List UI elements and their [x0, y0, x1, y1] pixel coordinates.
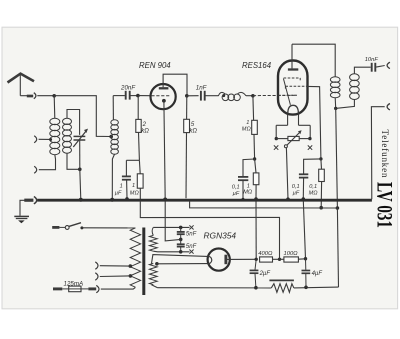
wire [152, 255, 208, 264]
transformer sec heater [149, 228, 157, 252]
node lineA screen [319, 206, 323, 210]
node rail 2uF [254, 286, 258, 290]
resistor field [269, 280, 294, 292]
node bus L2 [110, 198, 114, 202]
svg-text:Telefunken: Telefunken [380, 130, 390, 179]
wire [253, 94, 297, 96]
transformer core [142, 228, 145, 296]
capacitor 0.1uF screen [299, 174, 308, 177]
bus rail [37, 199, 372, 202]
choke HF [218, 92, 246, 100]
RGN354 anode [224, 255, 227, 265]
svg-text:RGN354: RGN354 [204, 230, 237, 240]
wire [138, 95, 151, 97]
wire [187, 95, 199, 97]
terminal mains tap1 [95, 262, 98, 269]
resistor 1M divider [253, 173, 259, 185]
label 5nF upper [186, 231, 197, 237]
wire [255, 185, 257, 198]
RES164 filament [288, 105, 299, 113]
resistor 1M bias [137, 174, 143, 188]
node antenna junction [52, 94, 56, 98]
resistor 2k [136, 119, 141, 132]
antenna [8, 74, 35, 96]
node 5nF mid [179, 238, 183, 242]
node prim tap2 [129, 274, 133, 278]
wire [37, 95, 54, 97]
label Telefunken [380, 130, 390, 179]
variable capacitor tuning [73, 129, 88, 147]
RES164 grid [278, 94, 297, 96]
node bias node [253, 157, 256, 160]
tube RGN354 envelope [208, 249, 230, 271]
wire [138, 132, 141, 160]
wire [307, 86, 321, 158]
wire [303, 200, 305, 258]
resistor 400 [260, 257, 273, 262]
resistor 5k [184, 119, 190, 132]
label 100 [284, 251, 299, 257]
svg-text:2: 2 [142, 122, 147, 128]
svg-text:100Ω: 100Ω [284, 251, 299, 257]
wire [39, 138, 51, 140]
node sec tap [155, 262, 159, 266]
label 125mA [64, 280, 84, 287]
node 5nF bot [179, 250, 183, 254]
label 400 [258, 251, 273, 257]
capacitor 5nF upper [177, 227, 185, 239]
svg-text:5nF: 5nF [186, 231, 197, 237]
capacitor 5nF lower [177, 239, 185, 251]
wire [39, 155, 56, 170]
capacitor 2uF [250, 259, 259, 287]
node B3 [304, 257, 307, 260]
node REN grid [136, 94, 140, 98]
label 1M bias [130, 183, 140, 197]
svg-text:kΩ: kΩ [189, 128, 197, 134]
wire [302, 178, 304, 198]
svg-text:4µF: 4µF [312, 271, 323, 277]
node B1 [255, 258, 258, 261]
capacitor 20nF [126, 91, 130, 100]
label LV031 [372, 182, 397, 228]
coil OT secondary [350, 74, 360, 100]
label 2k [141, 122, 149, 134]
antenna plug pin [27, 95, 33, 98]
wire [163, 74, 187, 96]
wire [157, 263, 208, 265]
wire [186, 96, 188, 120]
x-mark heater bot [189, 250, 193, 254]
svg-text:1: 1 [132, 183, 135, 189]
label 4uF [312, 271, 323, 277]
wire [126, 180, 128, 198]
node L1a tap [49, 138, 52, 141]
capacitor 0.1uF bias [238, 177, 248, 180]
terminal antenna low [34, 166, 37, 173]
capacitor 10nF [372, 63, 376, 72]
wire [80, 169, 81, 199]
svg-text:400Ω: 400Ω [258, 251, 273, 257]
label 1M grid [242, 120, 252, 133]
label 0.1uF screen [292, 184, 300, 197]
svg-text:1: 1 [246, 120, 249, 126]
wire [320, 182, 322, 208]
node rail 4uF [304, 286, 308, 290]
wire [100, 275, 131, 278]
node tuned circuit bottom [78, 168, 82, 172]
wire [79, 140, 81, 169]
svg-text:0,1: 0,1 [309, 184, 317, 190]
node RES grid [251, 94, 255, 98]
wire [255, 200, 257, 259]
x-mark fil left [274, 145, 278, 149]
svg-text:RES164: RES164 [242, 61, 272, 70]
wire [320, 159, 323, 169]
terminal mains tap2 [95, 273, 98, 280]
label 1M divider [243, 183, 253, 195]
node bus cathode [163, 198, 167, 202]
wire [243, 159, 255, 176]
capacitor 4uF [302, 259, 311, 288]
svg-text:10nF: 10nF [365, 57, 379, 63]
antenna jack [34, 93, 36, 99]
ground wire [20, 200, 25, 216]
REN904 grid [151, 95, 170, 97]
terminal speaker 2 [387, 104, 390, 110]
REN904 anode [159, 83, 169, 89]
node anode junction [185, 94, 189, 98]
capacitor 1nF [201, 91, 205, 101]
coil L2 [111, 96, 119, 155]
node choke blob [222, 94, 225, 97]
wire [334, 98, 337, 109]
wire [288, 114, 299, 125]
tube RES164 envelope [278, 61, 308, 115]
svg-text:µF: µF [293, 191, 300, 197]
wire [298, 258, 305, 260]
node OT bottom [334, 107, 337, 110]
tube REN904 envelope [151, 84, 176, 109]
label RGN354 [204, 230, 237, 240]
node screen node [319, 157, 322, 160]
svg-text:kΩ: kΩ [141, 128, 149, 134]
wire [304, 159, 321, 174]
REN904 filament [162, 99, 166, 103]
resistor 1M grid [252, 120, 258, 134]
svg-text:2µF: 2µF [259, 271, 271, 277]
label 10nF [365, 57, 379, 63]
wire [153, 226, 189, 228]
wire [137, 96, 139, 120]
wire [138, 160, 141, 174]
svg-text:LV 031: LV 031 [372, 182, 397, 228]
ground [14, 216, 29, 223]
node L2 tap [109, 135, 113, 139]
wire [158, 287, 272, 289]
label 20nF [120, 85, 136, 92]
transformer sec rectifier [149, 263, 157, 284]
node lineA OT [336, 206, 340, 210]
capacitor 1uF cathode [122, 176, 131, 179]
node fil left [275, 137, 278, 140]
label RES164 [242, 61, 272, 70]
wire [206, 95, 219, 97]
resistor 0.1M screen [319, 169, 325, 181]
label 0.1M screen [309, 184, 319, 197]
terminal speaker 1 [387, 62, 390, 68]
wire [83, 227, 136, 229]
node 5nF top [179, 226, 183, 230]
svg-text:1: 1 [120, 183, 123, 189]
node bus 01uF [242, 198, 245, 201]
node bus B [254, 197, 258, 201]
wire [253, 134, 256, 159]
svg-text:MΩ: MΩ [243, 189, 253, 195]
wire [125, 160, 127, 175]
node bus screen [302, 197, 306, 201]
wire [280, 258, 284, 260]
bus plug pin [24, 199, 33, 202]
wire [255, 159, 256, 173]
wire [246, 95, 253, 97]
svg-text:20nF: 20nF [120, 85, 136, 92]
coil OT primary [330, 77, 340, 98]
node bus wiper [286, 197, 290, 201]
label 2uF [259, 271, 271, 277]
label 5nF lower [186, 244, 197, 250]
wire [126, 159, 139, 161]
wire [20, 95, 27, 97]
svg-text:MΩ: MΩ [130, 191, 140, 197]
wire [291, 44, 293, 68]
svg-text:MΩ: MΩ [309, 191, 319, 197]
switch mains [52, 223, 83, 230]
label 5k [189, 122, 197, 134]
wire [152, 285, 158, 288]
wire [252, 96, 255, 121]
wire [286, 148, 288, 199]
wire [139, 188, 141, 199]
wire [273, 258, 280, 260]
wire [131, 95, 138, 97]
node fil right [308, 137, 311, 140]
wire [336, 108, 338, 207]
svg-text:1nF: 1nF [196, 84, 208, 91]
coil L1b [63, 110, 80, 154]
wire [54, 96, 110, 137]
x-mark heater top [189, 225, 193, 229]
RGN354 filament [208, 256, 212, 264]
wire [112, 154, 114, 200]
svg-text:MΩ: MΩ [242, 126, 252, 132]
wire [164, 102, 165, 200]
wire [242, 180, 244, 198]
wire [67, 153, 80, 169]
svg-text:0,1: 0,1 [232, 184, 240, 190]
rheostat filament [276, 130, 310, 148]
wire [371, 107, 384, 200]
wire [294, 286, 339, 289]
wire [113, 95, 125, 97]
wire [354, 67, 370, 74]
resistor 100 [284, 257, 299, 262]
bus jack [34, 197, 37, 204]
label 0.1uF bias [232, 184, 240, 197]
wire [226, 258, 256, 260]
svg-text:µF: µF [115, 191, 122, 197]
svg-text:REN 904: REN 904 [139, 61, 171, 70]
svg-text:0,1: 0,1 [292, 184, 300, 190]
terminal antenna tap [34, 136, 37, 143]
RES164 screen [285, 86, 307, 88]
node B2 [278, 258, 281, 261]
svg-text:µF: µF [233, 191, 240, 197]
wire [101, 287, 136, 289]
wire [276, 124, 310, 126]
wire [276, 125, 310, 138]
transformer primary [130, 228, 140, 287]
coil L1a [50, 96, 60, 155]
wire [153, 250, 189, 253]
RES164 suppressor [283, 78, 300, 105]
fuse 125mA [53, 286, 96, 292]
x-mark fil right [308, 145, 312, 149]
wire [376, 66, 385, 68]
wire [165, 200, 181, 241]
label REN 904 [139, 61, 171, 70]
label 1uF [115, 183, 123, 196]
RES164 anode [288, 68, 298, 70]
node bus ant [79, 198, 83, 202]
wire [100, 265, 131, 267]
node prim tap1 [129, 264, 133, 268]
wire [337, 99, 355, 108]
terminal mains fuse [96, 285, 99, 292]
node bus 1uF [125, 197, 129, 201]
wire [190, 201, 338, 208]
label 1nF [196, 84, 208, 91]
wire [337, 208, 338, 287]
svg-text:5nF: 5nF [186, 244, 197, 250]
wire [140, 201, 279, 259]
wire [292, 44, 335, 77]
wire [185, 133, 188, 199]
